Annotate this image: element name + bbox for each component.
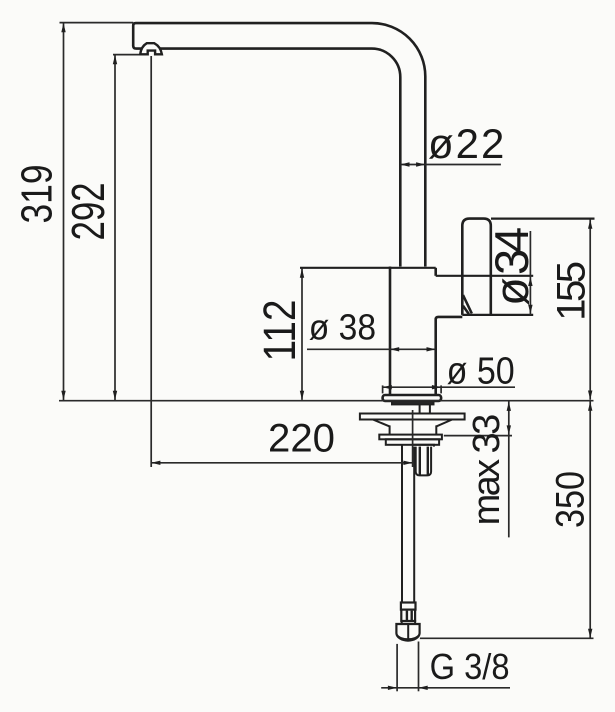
svg-text:319: 319	[12, 165, 61, 224]
svg-text:ø 38: ø 38	[309, 306, 376, 347]
svg-text:max 33: max 33	[466, 415, 508, 525]
svg-text:ø: ø	[485, 277, 538, 306]
svg-text:292: 292	[62, 183, 114, 241]
svg-text:G 3/8: G 3/8	[430, 646, 510, 687]
svg-text:ø 50: ø 50	[447, 351, 515, 393]
svg-text:350: 350	[548, 471, 592, 528]
svg-text:34: 34	[485, 228, 538, 275]
svg-text:ø22: ø22	[428, 120, 506, 167]
svg-text:112: 112	[254, 300, 305, 362]
svg-text:220: 220	[268, 417, 335, 461]
svg-text:155: 155	[550, 262, 594, 320]
